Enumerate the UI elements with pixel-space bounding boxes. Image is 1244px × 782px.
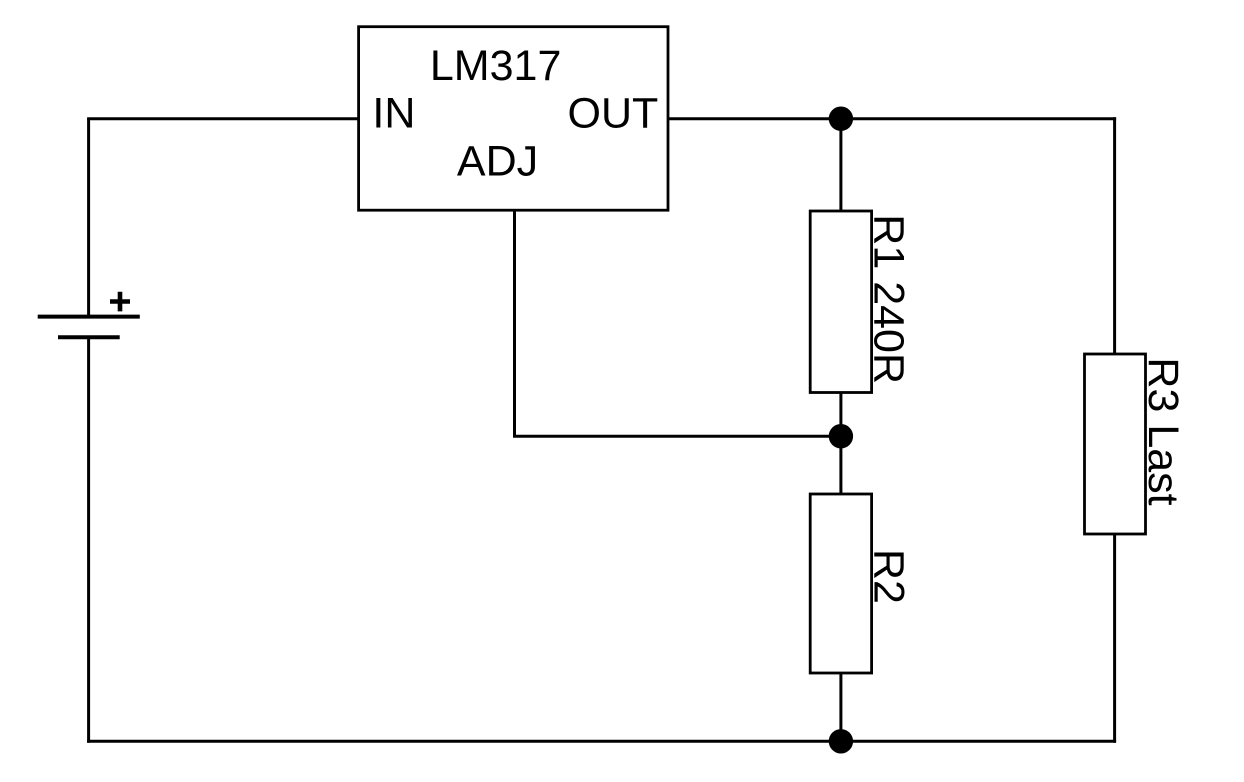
wire: OUT node down to R1 xyxy=(839,119,842,211)
wire: OUT pin to right rail xyxy=(668,117,1116,120)
pin label OUT xyxy=(568,90,659,138)
regulator U1 LM317 body xyxy=(359,27,668,211)
node: OUT junction xyxy=(829,107,853,131)
resistor R3 body xyxy=(1085,354,1146,534)
battery B1 positive plate xyxy=(38,315,140,319)
svg-text:R3 Last: R3 Last xyxy=(1139,357,1187,505)
svg-text:LM317: LM317 xyxy=(430,42,561,90)
pin label IN xyxy=(372,90,415,138)
label R3 Last xyxy=(1139,357,1187,505)
node: ADJ divider junction xyxy=(829,424,853,448)
wire: R2 bottom to ground rail xyxy=(839,673,842,741)
svg-text:R2: R2 xyxy=(865,549,913,604)
wire: right rail upper segment xyxy=(1113,117,1116,354)
label LM317 xyxy=(430,42,561,90)
resistor R2 body xyxy=(810,494,871,673)
wire: right rail lower segment xyxy=(1113,534,1116,743)
battery B1 plus sign xyxy=(110,292,130,312)
svg-text:R1 240R: R1 240R xyxy=(865,214,913,384)
label R1 240R xyxy=(865,214,913,384)
wire: ADJ node down to R2 xyxy=(839,436,842,494)
wire: left rail top (battery + up to IN corner) xyxy=(87,119,90,317)
wire: ADJ pin vertical drop xyxy=(513,210,516,436)
wire: ADJ horizontal to divider node xyxy=(513,435,841,438)
node: ground junction xyxy=(829,729,853,753)
svg-text:ADJ: ADJ xyxy=(457,137,538,185)
wire: bottom rail xyxy=(87,740,1116,743)
pin label ADJ xyxy=(457,137,538,185)
wire: top-left horizontal to IN pin xyxy=(87,117,359,120)
resistor R1 body xyxy=(810,211,871,393)
battery B1 negative plate xyxy=(58,335,120,339)
svg-text:IN: IN xyxy=(372,90,415,138)
wire: R1 bottom to ADJ node xyxy=(839,393,842,437)
svg-text:OUT: OUT xyxy=(568,90,659,138)
label R2 xyxy=(865,549,913,604)
wire: left rail bottom (battery minus down) xyxy=(87,337,90,743)
